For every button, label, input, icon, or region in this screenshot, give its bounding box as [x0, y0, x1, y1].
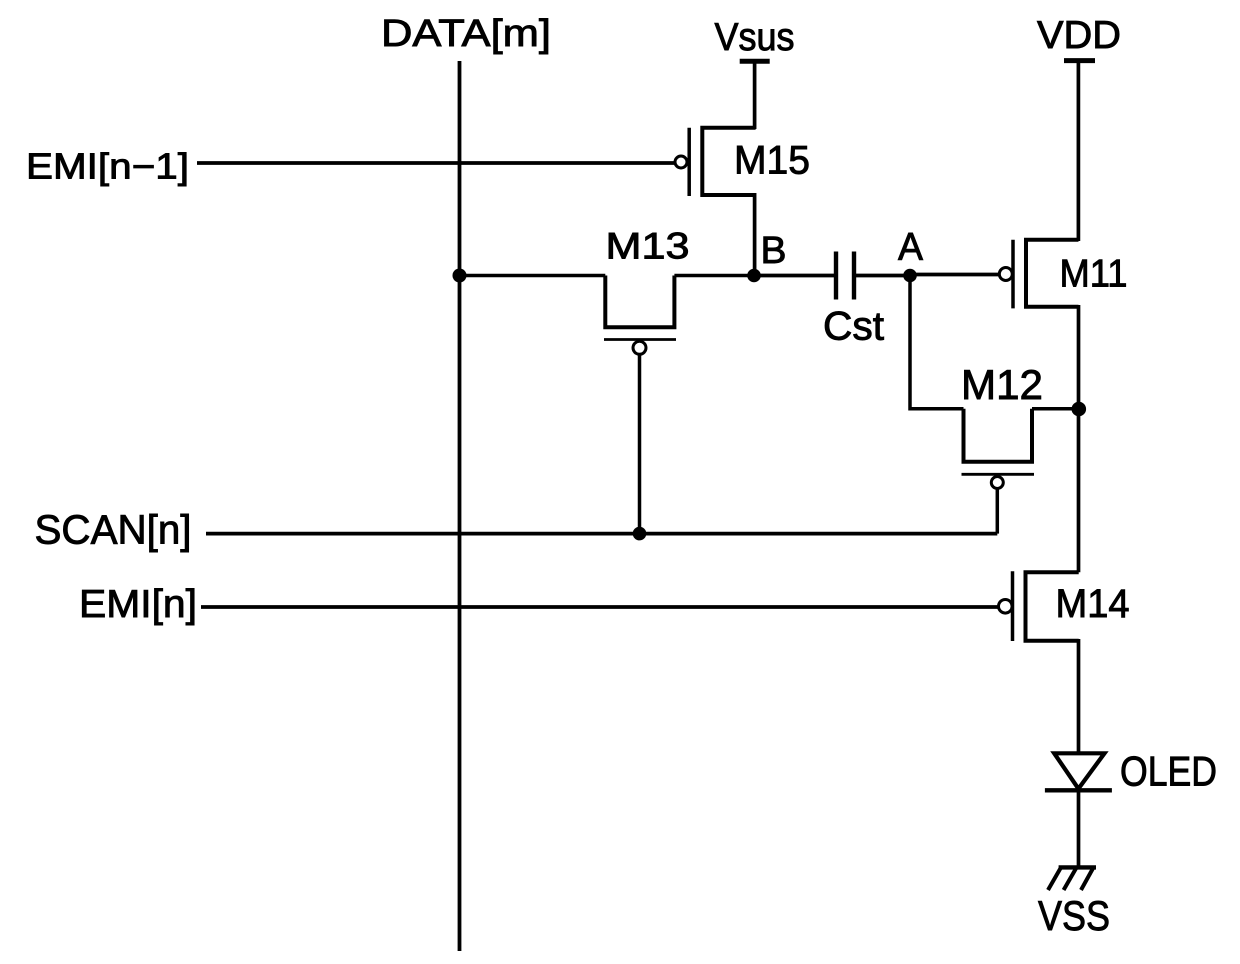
- svg-text:M14: M14: [1056, 582, 1130, 626]
- node B junction dot: [747, 269, 761, 283]
- wire node A down to M12: [910, 276, 964, 409]
- svg-text:B: B: [761, 230, 787, 272]
- wire EMI[n-1] to M15 gate: [197, 161, 675, 165]
- wire M13 drain to node B: [674, 274, 754, 278]
- svg-text:EMI[n−1]: EMI[n−1]: [26, 146, 189, 187]
- junction dot SCAN / M13 gate: [633, 527, 647, 541]
- ground VSS symbol: [1048, 867, 1096, 890]
- wire M11 drain down to M14: [1077, 305, 1081, 572]
- power supply VDD terminal: [1064, 61, 1095, 241]
- wire node A to M11 gate: [910, 273, 1000, 277]
- svg-text:M11: M11: [1060, 253, 1128, 296]
- diode OLED: [1045, 753, 1112, 790]
- wire Cst to node A: [854, 274, 910, 278]
- svg-text:Vsus: Vsus: [715, 16, 795, 59]
- wire M12 drain to rail: [1032, 407, 1079, 411]
- transistor M15: [675, 128, 756, 196]
- svg-text:Cst: Cst: [823, 305, 884, 349]
- wire SCAN[n] horizontal: [206, 532, 997, 536]
- wire M15 drain to node B: [753, 193, 757, 276]
- svg-text:SCAN[n]: SCAN[n]: [35, 507, 192, 553]
- svg-text:VDD: VDD: [1037, 14, 1121, 57]
- svg-text:M13: M13: [606, 226, 690, 267]
- wire EMI[n] to M14 gate: [201, 605, 998, 609]
- wire M13 gate to SCAN[n]: [638, 354, 642, 533]
- wire M14 drain to OLED: [1077, 639, 1081, 753]
- wire DATA to M13 source: [460, 274, 606, 278]
- transistor M14: [999, 571, 1079, 641]
- power supply Vsus terminal: [740, 61, 770, 129]
- node A junction dot: [903, 269, 917, 283]
- svg-text:DATA[m]: DATA[m]: [381, 13, 551, 55]
- svg-text:A: A: [898, 226, 923, 269]
- junction dot DATA / M13: [453, 269, 467, 283]
- junction dot M12 drain / rail: [1072, 402, 1087, 417]
- svg-text:VSS: VSS: [1038, 892, 1110, 939]
- wire OLED cathode to ground: [1077, 790, 1081, 867]
- wire DATA[m] vertical bus: [458, 61, 462, 951]
- svg-text:OLED: OLED: [1120, 748, 1217, 795]
- transistor M13: [604, 276, 676, 355]
- svg-text:M12: M12: [961, 361, 1043, 408]
- capacitor Cst: [836, 252, 854, 300]
- transistor M11: [999, 240, 1078, 309]
- wire M12 gate to SCAN[n]: [996, 489, 1000, 534]
- svg-text:M15: M15: [734, 139, 810, 183]
- transistor M12: [962, 409, 1035, 489]
- wire node B to Cst: [754, 274, 836, 278]
- svg-text:EMI[n]: EMI[n]: [79, 583, 197, 626]
